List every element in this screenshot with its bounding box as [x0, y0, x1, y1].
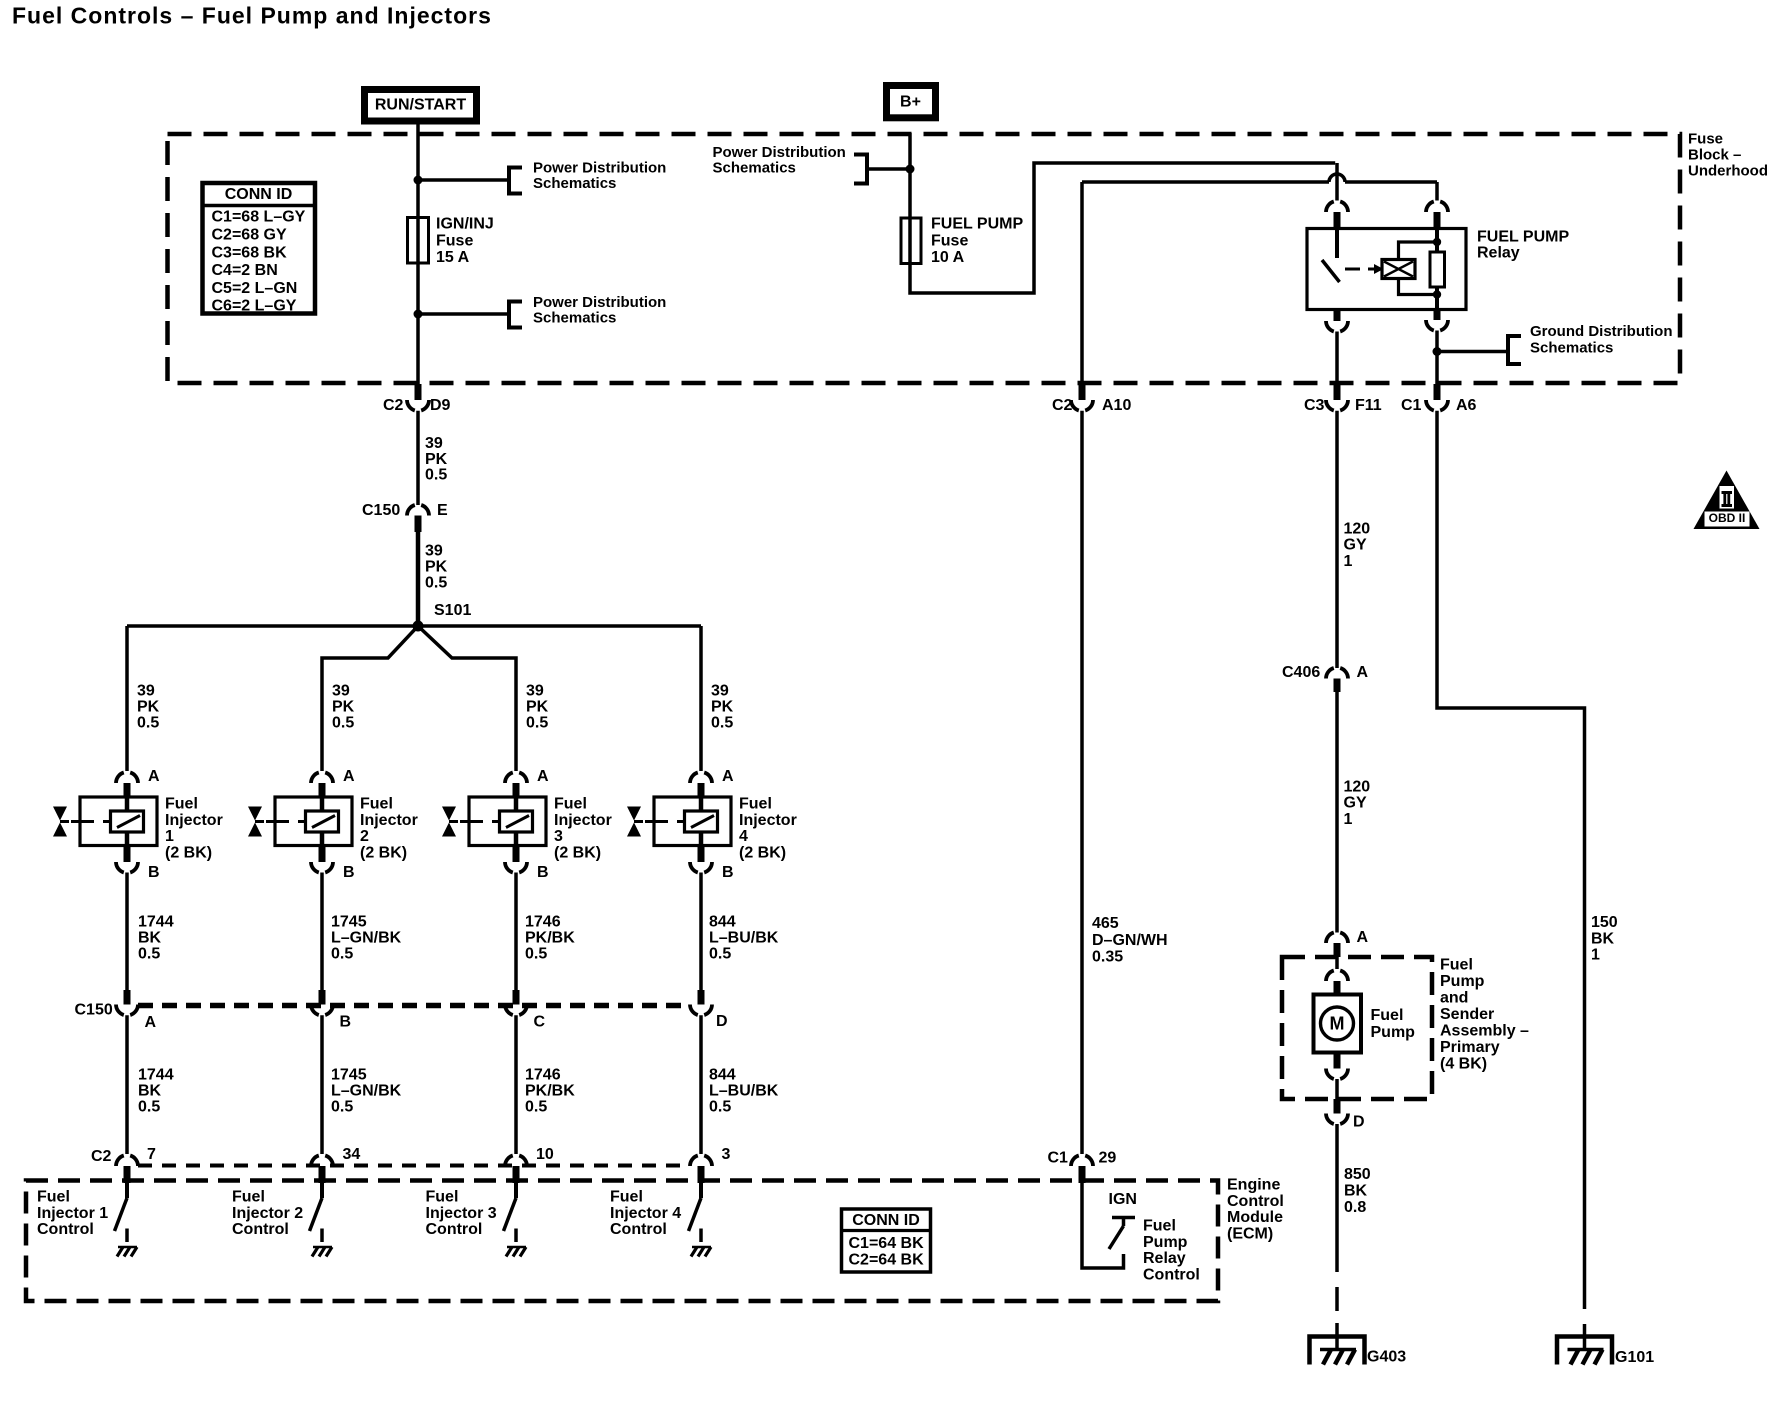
- connector fuel pump internal top: [1335, 957, 1339, 969]
- svg-text:L–BU/BK: L–BU/BK: [709, 1083, 779, 1100]
- svg-text:0.5: 0.5: [525, 946, 547, 963]
- svg-text:Control: Control: [1143, 1266, 1200, 1283]
- svg-text:29: 29: [1099, 1150, 1117, 1167]
- svg-text:A: A: [722, 768, 734, 785]
- svg-text:D: D: [1353, 1114, 1365, 1131]
- svg-text:465: 465: [1092, 915, 1119, 932]
- connector C150 pin D: [698, 990, 705, 1005]
- fuse FUEL PUMP 10A: [901, 218, 921, 264]
- svg-text:Relay: Relay: [1143, 1250, 1186, 1267]
- svg-text:C3: C3: [1304, 397, 1325, 414]
- svg-text:0.5: 0.5: [331, 1099, 353, 1116]
- injector 4 spray symbol: [627, 807, 641, 821]
- svg-text:0.5: 0.5: [711, 715, 733, 732]
- wire relay output 120 GY to C406: [1335, 411, 1339, 668]
- wire injector 2 control to ECM: [320, 1015, 324, 1154]
- fuse block underhood dashed box: [168, 134, 1681, 383]
- fuel pump and sender assembly dashed box: [1282, 957, 1432, 1099]
- wire RUN/START to fuse block: [416, 124, 420, 134]
- connector injector 2 pin B: [319, 846, 326, 863]
- svg-text:Fuel: Fuel: [1440, 957, 1473, 974]
- ground ECM injector 4 driver: [692, 1246, 711, 1249]
- svg-text:L–BU/BK: L–BU/BK: [709, 930, 779, 947]
- connector C406 A: [1326, 668, 1334, 679]
- connector injector 1 pin A: [116, 773, 124, 784]
- svg-text:D: D: [716, 1013, 728, 1030]
- svg-text:Fuel: Fuel: [554, 796, 587, 813]
- svg-text:C2=68 GY: C2=68 GY: [212, 227, 287, 244]
- svg-text:and: and: [1440, 990, 1468, 1007]
- connector C150 pin C: [513, 990, 520, 1005]
- svg-text:Fuel: Fuel: [360, 796, 393, 813]
- svg-text:PK: PK: [711, 699, 734, 716]
- wire relay ground side to C1 A6: [1435, 331, 1439, 385]
- svg-text:Power Distribution: Power Distribution: [533, 159, 666, 176]
- ground ECM injector 3 driver: [507, 1246, 526, 1249]
- injector 1 spray symbol: [53, 807, 67, 821]
- svg-text:PK: PK: [425, 451, 448, 468]
- svg-text:Injector: Injector: [165, 812, 223, 829]
- svg-text:BK: BK: [1591, 930, 1615, 947]
- wire fuel pump fuse to relay switch: [910, 163, 1335, 293]
- wire 465 relay control: [1080, 411, 1084, 1154]
- svg-text:C150: C150: [75, 1002, 113, 1019]
- svg-text:F11: F11: [1355, 397, 1382, 414]
- relay coil bottom lead: [1399, 279, 1438, 295]
- svg-text:IGN: IGN: [1109, 1191, 1137, 1208]
- relay coil arrow: [1374, 264, 1384, 274]
- svg-text:C150: C150: [362, 502, 400, 519]
- svg-text:C2: C2: [1052, 397, 1073, 414]
- svg-text:Fuse: Fuse: [931, 232, 968, 249]
- svg-text:1: 1: [1591, 947, 1600, 964]
- wire injector 4 control to C150: [699, 873, 703, 991]
- wire 39 PK to C150: [416, 411, 420, 505]
- svg-text:G101: G101: [1615, 1349, 1654, 1366]
- svg-text:1746: 1746: [525, 1067, 561, 1084]
- svg-text:2: 2: [360, 828, 369, 845]
- svg-text:39: 39: [137, 683, 155, 700]
- B+ power feed box: [887, 86, 936, 118]
- svg-text:L–GN/BK: L–GN/BK: [331, 930, 402, 947]
- svg-text:120: 120: [1344, 521, 1371, 538]
- fuel injector 1: [80, 797, 157, 846]
- wire ECM fuel pump relay control: [1082, 1183, 1124, 1268]
- connector relay pin 85 bottom: [1434, 310, 1441, 321]
- svg-text:10: 10: [536, 1146, 554, 1163]
- svg-text:1744: 1744: [138, 914, 174, 931]
- svg-text:Control: Control: [37, 1221, 94, 1238]
- svg-text:A6: A6: [1456, 397, 1477, 414]
- relay coil resistor lead top: [1435, 229, 1439, 253]
- svg-text:39: 39: [711, 683, 729, 700]
- connector relay pin 87 bottom: [1334, 310, 1341, 322]
- fuel injector 2: [275, 797, 352, 846]
- connector C150 harness row: [138, 1003, 690, 1009]
- svg-text:C1: C1: [1401, 397, 1422, 414]
- svg-text:(2 BK): (2 BK): [554, 844, 601, 861]
- svg-text:C3=68 BK: C3=68 BK: [212, 244, 288, 261]
- svg-text:1: 1: [1344, 553, 1353, 570]
- svg-text:Schematics: Schematics: [533, 310, 616, 327]
- svg-text:C1=68 L–GY: C1=68 L–GY: [212, 209, 306, 226]
- svg-text:(2 BK): (2 BK): [739, 844, 786, 861]
- connector fuel pump internal bottom: [1334, 1053, 1341, 1069]
- svg-text:Injector: Injector: [360, 812, 418, 829]
- OBD II symbol: [1694, 471, 1760, 530]
- svg-text:Relay: Relay: [1477, 245, 1520, 262]
- svg-text:Pump: Pump: [1440, 973, 1485, 990]
- connector C2 A10: [1079, 384, 1086, 400]
- svg-text:BK: BK: [138, 1083, 162, 1100]
- fuel injector 3: [469, 797, 546, 846]
- svg-text:G403: G403: [1367, 1349, 1406, 1366]
- svg-text:Injector: Injector: [739, 812, 797, 829]
- svg-text:B: B: [722, 864, 734, 881]
- svg-text:PK/BK: PK/BK: [525, 930, 575, 947]
- wire drop injector 4: [699, 626, 703, 771]
- svg-text:D–GN/WH: D–GN/WH: [1092, 932, 1168, 949]
- svg-text:PK: PK: [526, 699, 549, 716]
- svg-text:Sender: Sender: [1440, 1006, 1494, 1023]
- relay switch: [1335, 229, 1339, 259]
- connector C2 pin 3: [690, 1156, 698, 1167]
- svg-text:0.5: 0.5: [425, 575, 447, 592]
- svg-text:A: A: [343, 768, 355, 785]
- svg-text:39: 39: [526, 683, 544, 700]
- ground G101: [1557, 1337, 1612, 1365]
- svg-text:Pump: Pump: [1371, 1024, 1416, 1041]
- svg-text:Module: Module: [1227, 1209, 1283, 1226]
- svg-text:Injector 3: Injector 3: [426, 1205, 497, 1222]
- svg-text:C406: C406: [1282, 664, 1320, 681]
- svg-text:120: 120: [1344, 779, 1371, 796]
- injector 3 spray symbol: [442, 807, 456, 821]
- svg-text:844: 844: [709, 914, 736, 931]
- wire relay coil feed from ECM control: [1082, 180, 1329, 184]
- svg-text:Power Distribution: Power Distribution: [713, 144, 846, 161]
- svg-text:0.5: 0.5: [709, 946, 731, 963]
- connector C1 A6: [1434, 384, 1441, 400]
- svg-text:Control: Control: [610, 1221, 667, 1238]
- svg-text:Fuel: Fuel: [610, 1189, 643, 1206]
- svg-text:Block –: Block –: [1688, 146, 1741, 163]
- svg-text:1: 1: [165, 828, 174, 845]
- bracket power distribution lower: [509, 302, 522, 328]
- svg-text:Control: Control: [232, 1221, 289, 1238]
- svg-text:GY: GY: [1344, 537, 1367, 554]
- svg-text:Assembly –: Assembly –: [1440, 1023, 1529, 1040]
- connector injector 3 pin A: [505, 773, 513, 784]
- CONN ID table fuse block: [203, 183, 316, 314]
- connector C2 pin 7: [116, 1156, 124, 1167]
- svg-text:0.5: 0.5: [332, 715, 354, 732]
- splice S101: [413, 621, 424, 632]
- connector C2 pin 34: [311, 1156, 319, 1167]
- svg-text:E: E: [437, 502, 448, 519]
- svg-text:A: A: [145, 1014, 157, 1031]
- wire 120 GY to fuel pump: [1335, 692, 1339, 933]
- RUN/START power feed box: [365, 90, 477, 122]
- relay FUEL PUMP box: [1307, 229, 1466, 310]
- svg-text:Fuel: Fuel: [426, 1189, 459, 1206]
- svg-text:PK: PK: [137, 699, 160, 716]
- svg-text:0.5: 0.5: [138, 946, 160, 963]
- svg-text:RUN/START: RUN/START: [375, 97, 466, 114]
- svg-text:Fuel: Fuel: [37, 1189, 70, 1206]
- svg-text:Fuel: Fuel: [1371, 1007, 1404, 1024]
- svg-text:D9: D9: [430, 397, 451, 414]
- wire to power distribution ref upper: [418, 178, 509, 182]
- svg-text:A10: A10: [1102, 397, 1131, 414]
- wire injector 3 control to ECM: [514, 1015, 518, 1154]
- junction ignition feed lower: [414, 310, 423, 319]
- svg-text:0.5: 0.5: [525, 1099, 547, 1116]
- connector injector 3 pin B: [513, 846, 520, 863]
- svg-text:C2: C2: [383, 397, 404, 414]
- svg-text:15 A: 15 A: [436, 249, 470, 266]
- svg-text:844: 844: [709, 1067, 736, 1084]
- connector fuel pump pin D: [1334, 1099, 1341, 1114]
- svg-text:Injector 4: Injector 4: [610, 1205, 681, 1222]
- svg-text:Control: Control: [1227, 1193, 1284, 1210]
- svg-text:Fuel Controls – Fuel Pump and: Fuel Controls – Fuel Pump and Injectors: [12, 3, 492, 29]
- svg-text:C5=2 L–GN: C5=2 L–GN: [212, 280, 298, 297]
- wire 850 BK to G403: [1335, 1124, 1339, 1272]
- svg-text:Fuel: Fuel: [232, 1189, 265, 1206]
- svg-text:IGN/INJ: IGN/INJ: [436, 216, 494, 233]
- svg-text:4: 4: [739, 828, 748, 845]
- wire drop injector 2: [322, 626, 418, 771]
- svg-text:150: 150: [1591, 914, 1618, 931]
- svg-text:Injector 2: Injector 2: [232, 1205, 303, 1222]
- svg-text:10 A: 10 A: [931, 249, 965, 266]
- relay coil output lead: [1435, 287, 1439, 310]
- svg-text:3: 3: [554, 828, 563, 845]
- svg-text:PK: PK: [332, 699, 355, 716]
- svg-text:C1=64 BK: C1=64 BK: [849, 1235, 925, 1252]
- connector C150 pin A: [124, 990, 131, 1005]
- wire injector 4 control to ECM: [699, 1015, 703, 1154]
- svg-text:1745: 1745: [331, 1067, 367, 1084]
- ground G403: [1310, 1337, 1365, 1365]
- junction ignition feed upper: [414, 176, 423, 185]
- wire injector 3 control to C150: [514, 873, 518, 991]
- svg-text:C2: C2: [91, 1148, 112, 1165]
- connector C3 F11: [1334, 384, 1341, 400]
- connector C150 E: [407, 505, 415, 516]
- wire injector feed bus: [127, 624, 701, 628]
- svg-text:A: A: [1357, 929, 1369, 946]
- svg-text:BK: BK: [1344, 1183, 1368, 1200]
- svg-text:Fuse: Fuse: [436, 232, 473, 249]
- svg-text:850: 850: [1344, 1166, 1371, 1183]
- svg-text:B+: B+: [900, 94, 921, 111]
- svg-text:CONN ID: CONN ID: [225, 186, 293, 203]
- svg-text:B: B: [343, 864, 355, 881]
- wire IGN/INJ fuse to C2 D9: [416, 263, 420, 384]
- svg-text:A: A: [148, 768, 160, 785]
- svg-text:Schematics: Schematics: [713, 160, 796, 177]
- bracket power distribution B+: [854, 155, 867, 184]
- svg-text:39: 39: [425, 543, 443, 560]
- svg-text:BK: BK: [138, 930, 162, 947]
- connector injector 1 pin B: [124, 846, 131, 863]
- svg-text:PK/BK: PK/BK: [525, 1083, 575, 1100]
- junction B+ feed: [906, 165, 915, 174]
- svg-text:(2 BK): (2 BK): [165, 844, 212, 861]
- svg-text:3: 3: [722, 1146, 731, 1163]
- fuel pump motor M1: [1314, 995, 1362, 1053]
- svg-text:B: B: [340, 1014, 352, 1031]
- svg-text:0.35: 0.35: [1092, 948, 1123, 965]
- svg-text:C1: C1: [1048, 1150, 1069, 1167]
- bracket power distribution upper: [509, 168, 522, 194]
- ECM driver switch injector 1: [125, 1183, 129, 1198]
- svg-text:0.5: 0.5: [138, 1099, 160, 1116]
- connector C2 ECM row: [138, 1164, 690, 1168]
- relay actuation dashed link: [1345, 268, 1360, 271]
- svg-text:0.5: 0.5: [526, 715, 548, 732]
- svg-text:(2 BK): (2 BK): [360, 844, 407, 861]
- junction relay coil top: [1433, 238, 1441, 246]
- svg-text:FUEL PUMP: FUEL PUMP: [931, 216, 1023, 233]
- svg-text:Control: Control: [426, 1221, 483, 1238]
- svg-text:M: M: [1330, 1014, 1345, 1034]
- wire 39 PK to splice S101: [416, 532, 421, 626]
- svg-text:Schematics: Schematics: [533, 175, 616, 192]
- svg-text:PK: PK: [425, 559, 448, 576]
- svg-text:B: B: [537, 864, 549, 881]
- svg-text:1745: 1745: [331, 914, 367, 931]
- wire relay control drop to C2 A10: [1080, 182, 1084, 384]
- connector relay coil pin top: [1426, 202, 1434, 213]
- connector relay pin 30 top: [1326, 202, 1334, 213]
- wire injector 1 control to C150: [125, 873, 129, 991]
- svg-text:Injector: Injector: [554, 812, 612, 829]
- svg-text:A: A: [1357, 664, 1369, 681]
- connector fuel pump pin A: [1326, 933, 1334, 944]
- svg-text:34: 34: [343, 1146, 361, 1163]
- ECM driver switch injector 2: [320, 1183, 324, 1198]
- svg-text:0.5: 0.5: [137, 715, 159, 732]
- injector 2 spray symbol: [248, 807, 262, 821]
- svg-text:C6=2 L–GY: C6=2 L–GY: [212, 298, 297, 315]
- svg-text:Underhood: Underhood: [1688, 162, 1768, 179]
- wire B+ to fuel pump fuse: [908, 133, 912, 218]
- svg-text:C4=2 BN: C4=2 BN: [212, 262, 278, 279]
- svg-text:(4 BK): (4 BK): [1440, 1056, 1487, 1073]
- wire drop injector 1: [125, 626, 129, 771]
- wire drop injector 3: [418, 626, 516, 771]
- ECM driver switch injector 4: [699, 1183, 703, 1198]
- svg-text:7: 7: [147, 1146, 156, 1163]
- wire to power distribution ref B+: [869, 167, 910, 171]
- svg-text:Ground Distribution: Ground Distribution: [1530, 323, 1672, 340]
- connector injector 2 pin A: [311, 773, 319, 784]
- svg-text:Fuel: Fuel: [165, 796, 198, 813]
- svg-text:(ECM): (ECM): [1227, 1225, 1273, 1242]
- svg-text:Engine: Engine: [1227, 1177, 1280, 1194]
- ground ECM injector 2 driver: [313, 1246, 332, 1249]
- connector C2 pin 10: [505, 1156, 513, 1167]
- junction relay coil bottom: [1433, 290, 1441, 298]
- svg-text:C2=64 BK: C2=64 BK: [849, 1252, 925, 1269]
- ground ECM injector 1 driver: [118, 1246, 137, 1249]
- fuel injector 4: [654, 797, 731, 846]
- bracket ground distribution: [1508, 336, 1521, 364]
- connector injector 4 pin A: [690, 773, 698, 784]
- relay coil: [1382, 260, 1415, 279]
- svg-text:0.5: 0.5: [425, 467, 447, 484]
- resistor relay suppression: [1430, 252, 1445, 287]
- wire injector 1 control to ECM: [125, 1015, 129, 1154]
- svg-text:Fuse: Fuse: [1688, 130, 1723, 147]
- connector C2 D9: [415, 384, 422, 400]
- svg-text:Schematics: Schematics: [1530, 339, 1613, 356]
- svg-text:Fuel: Fuel: [1143, 1218, 1176, 1235]
- svg-text:Fuel: Fuel: [739, 796, 772, 813]
- connector C150 pin B: [319, 990, 326, 1005]
- CONN ID table ECM: [842, 1209, 931, 1272]
- svg-text:C: C: [534, 1014, 546, 1031]
- connector injector 4 pin B: [698, 846, 705, 863]
- wire 150 BK from C1 A6 to G101: [1437, 411, 1585, 1309]
- connector C1 29: [1071, 1156, 1079, 1167]
- svg-text:CONN ID: CONN ID: [852, 1212, 920, 1229]
- svg-text:Injector 1: Injector 1: [37, 1205, 108, 1222]
- fuse IGN/INJ 15A: [408, 218, 429, 264]
- svg-text:1746: 1746: [525, 914, 561, 931]
- svg-text:0.8: 0.8: [1344, 1199, 1366, 1216]
- svg-text:Pump: Pump: [1143, 1234, 1188, 1251]
- svg-text:0.5: 0.5: [709, 1099, 731, 1116]
- wire to power distribution ref lower: [418, 312, 509, 316]
- svg-text:A: A: [537, 768, 549, 785]
- wire relay output to C3 F11: [1335, 332, 1339, 385]
- svg-text:FUEL PUMP: FUEL PUMP: [1477, 229, 1569, 246]
- svg-text:Power Distribution: Power Distribution: [533, 294, 666, 311]
- svg-text:B: B: [148, 864, 160, 881]
- svg-text:39: 39: [332, 683, 350, 700]
- relay coil top lead: [1399, 242, 1438, 260]
- junction ground distribution tap: [1433, 347, 1442, 356]
- wire to ground distribution ref: [1437, 350, 1508, 354]
- wire injector 2 control to C150: [320, 873, 324, 991]
- wire ignition feed to IGN/INJ fuse: [416, 134, 420, 218]
- ECM dashed box: [26, 1181, 1218, 1302]
- svg-text:39: 39: [425, 435, 443, 452]
- svg-text:1744: 1744: [138, 1067, 174, 1084]
- svg-text:GY: GY: [1344, 795, 1367, 812]
- svg-text:Primary: Primary: [1440, 1039, 1500, 1056]
- svg-text:1: 1: [1344, 811, 1353, 828]
- ECM driver switch injector 3: [514, 1183, 518, 1198]
- svg-text:S101: S101: [434, 602, 471, 619]
- svg-text:0.5: 0.5: [331, 946, 353, 963]
- svg-text:L–GN/BK: L–GN/BK: [331, 1083, 402, 1100]
- svg-text:OBD II: OBD II: [1709, 511, 1746, 525]
